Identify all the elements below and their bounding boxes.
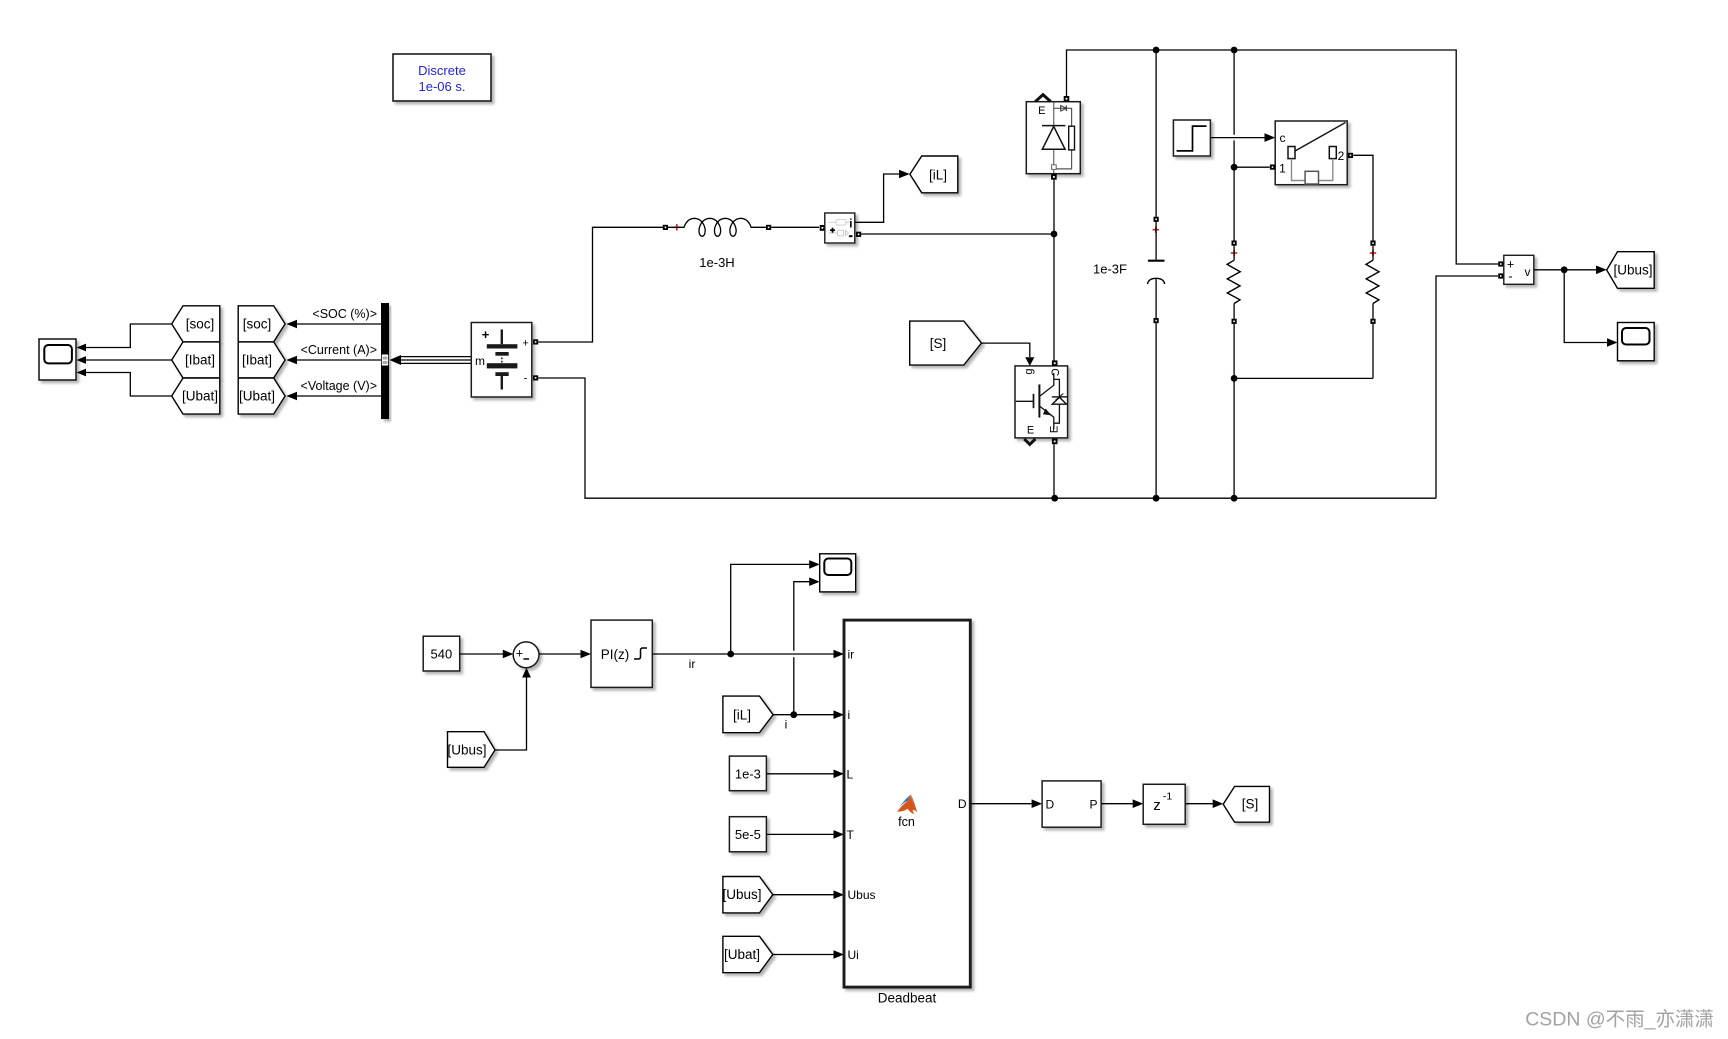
wire unit delay to Goto [S] [1185, 803, 1214, 805]
inductor coil 1e-3H [668, 218, 767, 236]
wire [iL] to Deadbeat i, label i [773, 714, 835, 716]
From tag [soc] (flipped) [172, 306, 220, 342]
unit delay z^-1 [1143, 784, 1185, 824]
step block [1173, 120, 1210, 156]
junction bottom rail R1 [1231, 495, 1238, 502]
svg-text:540: 540 [431, 647, 453, 662]
From tag [iL] bottom [723, 696, 773, 733]
svg-text:D: D [1046, 798, 1055, 812]
wire PI to Deadbeat ir, label ir [652, 653, 835, 655]
bus wire battery m to bus selector [400, 356, 471, 358]
inductor branch port left [663, 225, 668, 230]
svg-text:[S]: [S] [1242, 797, 1259, 812]
svg-text:i: i [785, 718, 788, 732]
Deadbeat MATLAB Function block [844, 620, 970, 987]
wire 540 to sum [460, 653, 504, 655]
svg-text:[Ibat]: [Ibat] [242, 353, 272, 368]
svg-text:L: L [847, 767, 854, 781]
svg-text:D: D [958, 797, 967, 811]
svg-text:1: 1 [1279, 162, 1286, 176]
svg-text:[Ubat]: [Ubat] [724, 947, 760, 962]
svg-text:<SOC (%)>: <SOC (%)> [312, 307, 377, 321]
svg-text:[Ubus]: [Ubus] [1613, 263, 1652, 278]
svg-text:i: i [848, 708, 851, 722]
wire BusSelector to Goto[Ubat], label Voltage [297, 395, 381, 397]
svg-text:<Voltage (V)>: <Voltage (V)> [301, 379, 377, 393]
wire bottom rail to V- [1436, 276, 1498, 498]
IGBT block [1015, 366, 1068, 438]
svg-text:E: E [1038, 105, 1045, 117]
wire sum to PI [539, 653, 582, 655]
wire [S] to IGBT gate [982, 343, 1030, 357]
junction top rail cap [1153, 47, 1160, 54]
svg-text:2: 2 [1338, 149, 1345, 163]
scope Scope1 [39, 339, 76, 380]
svg-text:Deadbeat: Deadbeat [878, 991, 937, 1006]
current measurement block [820, 225, 825, 231]
svg-text:Ui: Ui [848, 948, 859, 962]
Goto tag [soc] [238, 306, 285, 342]
svg-text:[Ubat]: [Ubat] [182, 389, 218, 404]
wire [iL] junction to Scope2 input2 [793, 657, 795, 715]
diode block D1 [1026, 102, 1080, 174]
inductor branch port right [766, 225, 771, 230]
battery + port [533, 339, 538, 344]
wire v out to Goto [Ubus] and Scope3 [1534, 269, 1596, 271]
wire IGBT emitter to bottom rail [1053, 444, 1055, 498]
svg-text:g: g [1023, 368, 1035, 374]
From tag [Ibat] (flipped) [172, 342, 220, 378]
MATLAB fcn logo [897, 795, 917, 815]
svg-text:[soc]: [soc] [243, 317, 272, 332]
breaker block [1275, 121, 1347, 185]
svg-text:Discrete: Discrete [418, 63, 466, 78]
From tag [Ubus] bottom-left [447, 732, 495, 768]
From tag [Ubat] bottom [723, 936, 773, 972]
sum block [513, 642, 539, 668]
wire current i to Goto [iL] [855, 174, 899, 222]
constant 540 [423, 636, 460, 671]
wire battery+ to inductor [538, 227, 663, 342]
Goto tag [Ubus] top [1607, 252, 1655, 289]
PWM D-P block [1042, 781, 1101, 827]
constant 5e-5 [729, 817, 766, 852]
wire BusSelector to Goto[soc], label SOC [297, 323, 381, 325]
From tag [Ubus] bottom-2 [722, 877, 772, 913]
svg-text:[Ubus]: [Ubus] [722, 887, 761, 902]
wire PWM to unit delay [1101, 803, 1134, 805]
svg-text:ir: ir [848, 648, 855, 662]
powergui Discrete block [393, 54, 491, 101]
wire diode bottom to IGBT top [1053, 180, 1055, 361]
svg-text:+: + [522, 338, 528, 350]
wire step to breaker c [1210, 137, 1265, 139]
wire From[Ubat] to Scope1 [85, 373, 172, 397]
svg-text:<Current (A)>: <Current (A)> [301, 343, 377, 357]
red plus inductor [674, 224, 680, 230]
wire From[soc] to Scope1 [85, 324, 172, 348]
svg-text:i: i [849, 218, 852, 230]
wire inductor to current measurement [771, 226, 819, 228]
capacitor branch 1e-3F [1155, 50, 1157, 217]
svg-text:v: v [1525, 265, 1531, 279]
Goto tag [Ubat] [238, 378, 285, 414]
svg-text:fcn: fcn [898, 815, 915, 829]
svg-text:-: - [524, 373, 528, 385]
svg-text:[Ibat]: [Ibat] [185, 353, 215, 368]
svg-text:Ubus: Ubus [848, 888, 876, 902]
junction bottom rail cap [1153, 495, 1160, 502]
Goto tag [Ibat] [238, 342, 285, 378]
wire [Ubus] to sum [495, 677, 527, 750]
svg-text:E: E [1027, 425, 1034, 437]
battery block [471, 323, 532, 398]
Goto tag [S] bottom [1223, 786, 1269, 822]
constant 1e-3 [729, 756, 766, 791]
battery - port [533, 375, 538, 380]
bus selector bar [381, 303, 389, 419]
junction bottom rail IGBT [1051, 495, 1058, 502]
wire Deadbeat D to PWM block [971, 803, 1034, 805]
svg-text:-1: -1 [1163, 791, 1172, 803]
svg-text:1e-3H: 1e-3H [699, 255, 734, 270]
svg-text:1e-3: 1e-3 [735, 766, 761, 781]
svg-text:+: + [482, 327, 490, 342]
resistor R1 branch [1233, 50, 1235, 135]
scope Scope3 [1618, 323, 1655, 361]
Goto tag [iL] [910, 156, 958, 193]
svg-text:5e-5: 5e-5 [735, 827, 761, 842]
voltage measurement block [1498, 261, 1503, 266]
svg-text:+: + [516, 646, 523, 660]
svg-text:c: c [1280, 131, 1286, 145]
svg-text:1e-3F: 1e-3F [1093, 262, 1127, 277]
svg-text:[iL]: [iL] [733, 708, 751, 723]
wire breaker port2 to R2 [1353, 155, 1373, 240]
junction top rail R1 [1231, 47, 1238, 54]
PI(z) controller block [591, 620, 652, 687]
svg-text:m: m [475, 354, 485, 368]
From tag [Ubat] (flipped) [172, 378, 220, 414]
wire junction to Scope2 input1 [731, 564, 810, 654]
scope Scope2 [820, 554, 856, 592]
svg-text:[S]: [S] [930, 336, 947, 351]
wire top rail [1067, 50, 1499, 264]
svg-text:1e-06 s.: 1e-06 s. [419, 79, 466, 94]
wire current - to IGBT branch [861, 233, 1054, 235]
svg-text:E: E [1049, 426, 1061, 433]
svg-text:[soc]: [soc] [186, 317, 215, 332]
svg-text:P: P [1089, 798, 1097, 812]
svg-text:[iL]: [iL] [929, 168, 947, 183]
svg-text:[Ubus]: [Ubus] [447, 743, 486, 758]
svg-text:-: - [1508, 269, 1512, 283]
svg-text:ir: ir [689, 657, 696, 671]
svg-text:[Ubat]: [Ubat] [239, 389, 275, 404]
svg-text:T: T [847, 828, 855, 842]
resistor R2 branch [1370, 241, 1375, 246]
wire battery- to bottom rail [538, 378, 1436, 498]
svg-text:PI(z): PI(z) [601, 647, 630, 662]
wire R1 branch to breaker port1 [1234, 166, 1270, 168]
junction measure/diode/IGBT [1051, 231, 1058, 238]
wire BusSelector to Goto[Ibat], label Current [297, 359, 381, 361]
svg-text:z: z [1153, 797, 1161, 814]
From tag [S] [910, 321, 982, 365]
wire From[Ibat] to Scope1 [85, 359, 172, 361]
junction R1/R2 tie [1231, 375, 1238, 382]
svg-text:CSDN @不雨_亦潇潇: CSDN @不雨_亦潇潇 [1525, 1009, 1714, 1031]
